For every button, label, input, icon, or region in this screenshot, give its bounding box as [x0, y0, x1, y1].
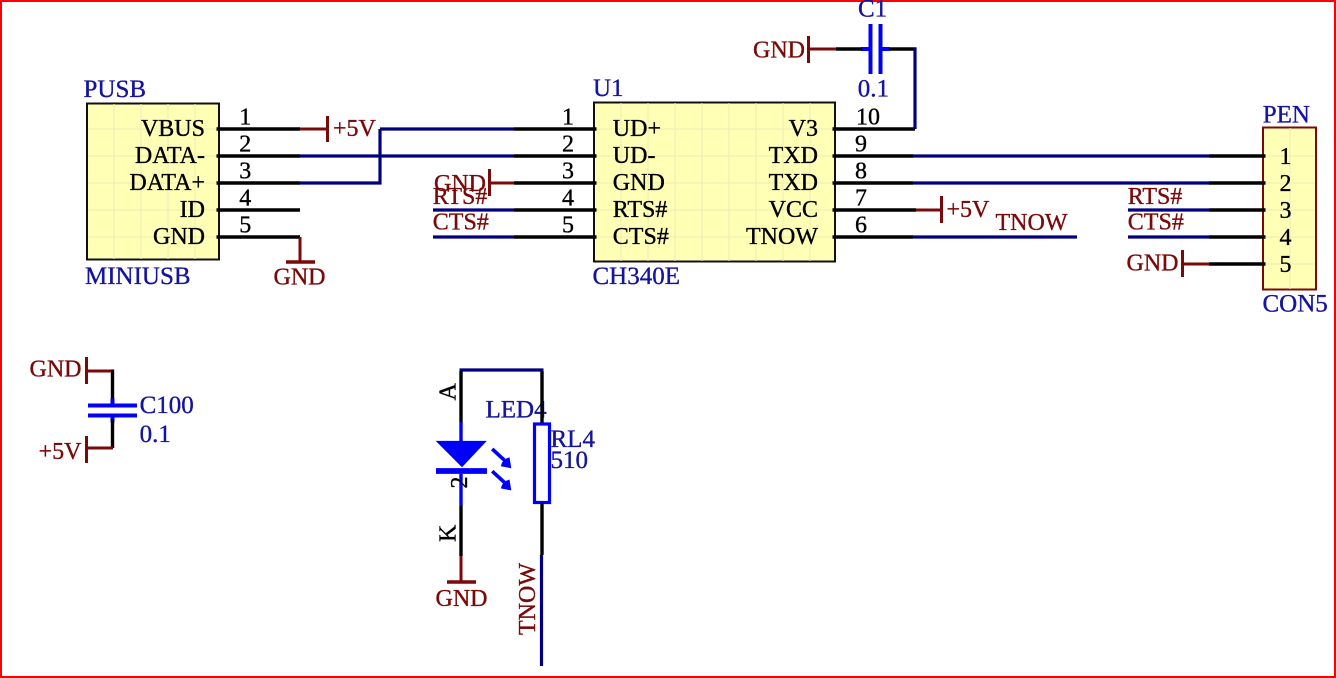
capacitor C100 — [88, 392, 194, 448]
svg-text:TXD: TXD — [769, 170, 818, 196]
svg-text:7: 7 — [855, 186, 867, 212]
ground GND at PUSB pin 5 — [274, 237, 326, 291]
svg-text:2: 2 — [447, 477, 473, 489]
wire C1 down to V3 pin — [913, 48, 916, 130]
ground GND at U1 pin 3 — [434, 169, 514, 197]
svg-text:3: 3 — [239, 159, 251, 185]
wire RTS# right — [1128, 208, 1209, 211]
svg-text:TNOW: TNOW — [746, 224, 818, 250]
power +5V at VCC — [916, 196, 990, 223]
svg-text:U1: U1 — [593, 75, 624, 102]
U1 pin 10 wire — [833, 127, 916, 130]
svg-text:1: 1 — [1280, 144, 1292, 170]
connector PEN body — [1263, 128, 1316, 290]
svg-text:MINIUSB: MINIUSB — [85, 263, 191, 290]
wire resistor bottom — [540, 503, 543, 555]
power +5V at VBUS — [300, 116, 377, 142]
ground GND at C1 — [753, 36, 836, 64]
capacitor C1 — [858, 0, 890, 103]
svg-text:CTS#: CTS# — [613, 224, 669, 250]
svg-text:RTS#: RTS# — [1128, 184, 1183, 210]
svg-text:TXD: TXD — [769, 143, 818, 169]
wire GND stub to C1 — [836, 47, 862, 50]
PEN pin 1 wire — [1209, 154, 1266, 157]
svg-text:RTS#: RTS# — [433, 184, 488, 210]
svg-text:4: 4 — [1280, 225, 1292, 251]
svg-text:C1: C1 — [858, 0, 887, 23]
svg-text:GND: GND — [753, 38, 805, 64]
wire C100 top — [111, 370, 114, 403]
PUSB pin 2 wire — [217, 154, 301, 157]
svg-text:8: 8 — [855, 159, 867, 185]
U1 pin 1 wire — [514, 127, 597, 130]
svg-text:1: 1 — [239, 105, 251, 131]
svg-text:CTS#: CTS# — [1128, 210, 1184, 236]
U1 pin 6 wire — [833, 235, 914, 238]
svg-text:PUSB: PUSB — [84, 76, 147, 103]
wire C100 bottom — [111, 419, 114, 448]
svg-text:DATA+: DATA+ — [129, 170, 205, 196]
U1 pin 9 wire — [833, 154, 914, 157]
svg-text:RTS#: RTS# — [613, 197, 668, 223]
svg-text:C100: C100 — [140, 392, 194, 419]
svg-text:TNOW: TNOW — [996, 210, 1068, 236]
PUSB pin 4 wire — [217, 208, 301, 211]
U1 pin 4 wire — [514, 208, 597, 211]
IC U1 body — [594, 103, 835, 262]
svg-text:GND: GND — [436, 586, 488, 612]
svg-text:0.1: 0.1 — [858, 76, 889, 103]
LED LED4 — [436, 422, 512, 506]
svg-text:A: A — [436, 383, 462, 401]
PUSB pin 3 wire — [217, 181, 301, 184]
svg-text:CH340E: CH340E — [593, 263, 681, 290]
svg-text:GND: GND — [153, 224, 205, 250]
svg-text:5: 5 — [239, 213, 251, 239]
svg-text:6: 6 — [855, 213, 867, 239]
PEN pin 4 wire — [1209, 235, 1266, 238]
connector PUSB body — [87, 104, 219, 260]
ground GND at PEN pin 5 — [1127, 250, 1210, 277]
wire resistor top — [540, 371, 543, 423]
svg-text:+5V: +5V — [39, 439, 83, 465]
wire DATA- to UD- — [299, 154, 514, 157]
svg-text:+5V: +5V — [333, 116, 377, 142]
resistor RL4 — [535, 424, 596, 503]
svg-text:4: 4 — [562, 186, 574, 212]
ground GND at C100 — [30, 357, 114, 385]
svg-text:9: 9 — [855, 132, 867, 158]
svg-text:TNOW: TNOW — [515, 563, 541, 635]
svg-text:GND: GND — [1127, 251, 1179, 277]
svg-text:CTS#: CTS# — [433, 210, 489, 236]
PUSB pin 1 wire — [217, 127, 301, 130]
svg-text:K: K — [436, 524, 462, 542]
wire TXD8 to PEN2 — [913, 181, 1209, 184]
svg-text:CON5: CON5 — [1263, 291, 1328, 318]
svg-text:510: 510 — [551, 447, 589, 474]
U1 pin 5 wire — [514, 235, 597, 238]
wire CTS# right — [1128, 235, 1209, 238]
svg-text:3: 3 — [1280, 198, 1292, 224]
wire LED cathode down — [459, 506, 462, 556]
wire CTS# left — [433, 235, 514, 238]
ground GND at LED — [436, 556, 488, 612]
svg-text:GND: GND — [30, 357, 82, 383]
svg-text:GND: GND — [613, 170, 665, 196]
wire C1 to corner — [889, 47, 917, 50]
wire UD+ row — [380, 127, 514, 130]
svg-text:V3: V3 — [789, 116, 818, 142]
PEN pin 5 wire — [1209, 262, 1266, 265]
power +5V at C100 — [39, 436, 113, 465]
svg-text:2: 2 — [239, 132, 251, 158]
svg-text:5: 5 — [562, 213, 574, 239]
svg-text:UD+: UD+ — [613, 116, 661, 142]
svg-text:2: 2 — [562, 132, 574, 158]
PEN pin 3 wire — [1209, 208, 1266, 211]
svg-text:3: 3 — [562, 159, 574, 185]
svg-text:2: 2 — [1280, 171, 1292, 197]
wire TNOW down — [540, 555, 543, 666]
svg-text:+5V: +5V — [947, 197, 991, 223]
wire RTS# left — [433, 208, 514, 211]
svg-text:LED4: LED4 — [486, 396, 548, 423]
svg-text:ID: ID — [180, 197, 205, 223]
svg-text:4: 4 — [239, 186, 251, 212]
PUSB pin 5 wire — [217, 235, 301, 238]
svg-text:5: 5 — [1280, 252, 1292, 278]
U1 pin 3 wire — [514, 181, 597, 184]
wire TXD9 to PEN1 — [913, 154, 1209, 157]
svg-text:VCC: VCC — [769, 197, 818, 223]
U1 pin 7 wire — [833, 208, 917, 211]
PEN pin 2 wire — [1209, 181, 1266, 184]
wire LED top rail — [460, 368, 544, 371]
svg-text:DATA-: DATA- — [135, 143, 205, 169]
svg-text:0.1: 0.1 — [140, 421, 171, 448]
U1 pin 2 wire — [514, 154, 597, 157]
svg-text:GND: GND — [274, 265, 326, 291]
wire DATA+ vertical jog — [378, 129, 381, 185]
svg-text:PEN: PEN — [1263, 102, 1310, 129]
svg-text:VBUS: VBUS — [141, 116, 205, 142]
svg-text:UD-: UD- — [613, 143, 656, 169]
svg-text:1: 1 — [562, 105, 574, 131]
wire TNOW — [913, 235, 1077, 238]
U1 pin 8 wire — [833, 181, 914, 184]
wire DATA+ row — [299, 181, 382, 184]
svg-text:10: 10 — [856, 105, 880, 131]
